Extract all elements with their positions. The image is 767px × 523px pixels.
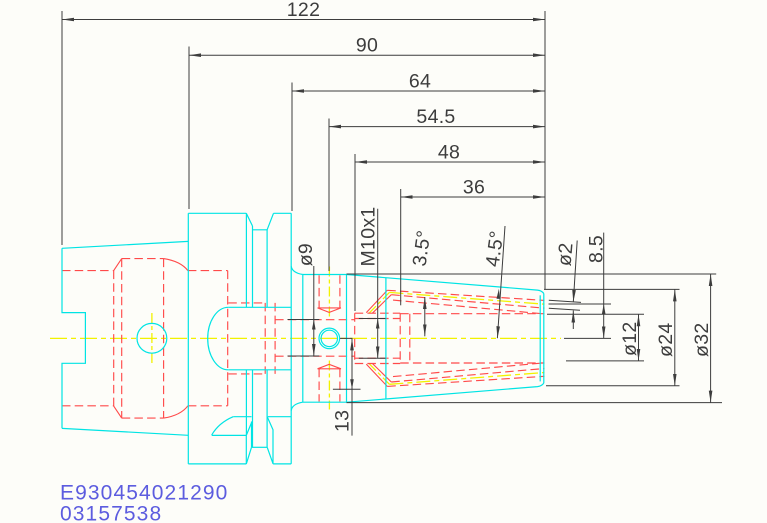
lower port left wall: [318, 369, 320, 402]
HSK cavity top line: [122, 258, 164, 260]
flange rear fillet bottom: [291, 402, 303, 410]
HSK cavity chamfer bottom-left: [114, 406, 122, 418]
svg-text:13: 13: [332, 410, 354, 432]
upper port left wall: [318, 275, 320, 308]
nose taper bottom edge: [347, 383, 544, 402]
flange V-groove top: [246, 213, 273, 230]
diameter 32 dimension line: [710, 274, 712, 403]
collet lead-in chamfer upper outer: [366, 290, 387, 312]
svg-text:36: 36: [463, 177, 485, 199]
HSK cavity corner arc top-right: [164, 259, 188, 271]
groove wall verticals bottom: [246, 370, 267, 448]
collet lead-in chamfer upper inner: [372, 295, 391, 314]
diameter 2 leader upper: [573, 241, 577, 303]
upper radial port centerline: [328, 267, 330, 317]
diameter 24 extension top: [544, 288, 680, 290]
collet taper upper line 2: [391, 295, 544, 309]
extension line port center: [328, 119, 330, 272]
collet taper centerline upper: [389, 292, 544, 304]
diameter 32 extension bottom: [347, 402, 723, 404]
bore 9 top hidden line: [275, 319, 355, 321]
thread M10 extension segment bottom: [359, 357, 386, 359]
svg-text:54.5: 54.5: [416, 106, 455, 128]
svg-text:ø2: ø2: [554, 242, 578, 267]
cone intermediate edge: [385, 278, 387, 399]
diameter 12 dimension line: [638, 314, 640, 361]
diameter 9 dimension line: [313, 266, 315, 356]
HSK cavity inner left wall: [121, 259, 123, 419]
front port inner circle: [321, 330, 337, 346]
dimension 90: [189, 54, 545, 56]
dimension 8.5 up arrow: [602, 304, 606, 314]
thread M10 minor bottom line: [355, 357, 401, 359]
dimension 122: [62, 19, 545, 21]
diameter 24 extension bottom: [546, 385, 680, 387]
collet taper upper line 1: [387, 290, 544, 300]
thread M10 top outer line: [355, 312, 401, 314]
flange top edge front: [188, 212, 246, 214]
flange bottom edge front: [188, 463, 246, 465]
HSK cavity bottom line: [122, 417, 164, 419]
hidden bore step wall 2: [274, 303, 276, 374]
pocket slant left: [246, 422, 252, 464]
svg-text:M10x1: M10x1: [358, 206, 380, 266]
thread M10 start face: [354, 313, 356, 363]
dimension 13 line: [351, 338, 353, 435]
hidden bore step wall 1: [264, 303, 266, 374]
drive pocket capsule top: [228, 306, 291, 308]
HSK cavity bore bottom line right: [188, 405, 228, 407]
main axis centerline: [50, 337, 561, 339]
upper port right wall: [339, 275, 341, 308]
svg-text:122: 122: [287, 0, 320, 21]
diameter 12 extension bottom: [566, 360, 644, 362]
HSK cavity bore top line right: [188, 270, 228, 272]
svg-text:ø9: ø9: [295, 243, 317, 266]
extension line flange face: [188, 47, 190, 210]
angle 4.5 up arrow: [497, 289, 501, 299]
svg-text:03157538: 03157538: [60, 503, 162, 523]
bore 12 bottom hidden line: [400, 362, 544, 364]
lower radial port centerline: [328, 361, 330, 410]
flange rear fillet top: [291, 266, 303, 274]
HSK cavity left wall: [113, 271, 115, 407]
svg-text:64: 64: [409, 71, 431, 93]
extension line flange rear: [291, 83, 293, 212]
nose taper top edge: [347, 275, 544, 294]
groove wall verticals top: [246, 213, 267, 307]
dimension 13 down arrow: [350, 379, 354, 389]
cylinder bottom edge: [303, 401, 347, 403]
nose end face inner chamfer line: [539, 295, 541, 381]
diameter 9 extension segment bottom: [288, 355, 320, 357]
flange bottom edge rear: [273, 463, 291, 465]
upper port drill cone: [318, 308, 342, 313]
extension line nose face: [544, 11, 546, 289]
axis extension line: [564, 337, 611, 339]
dimension 13 axis extension: [340, 337, 353, 339]
HSK shank rear face with keyway notch: [62, 248, 85, 428]
HSK cavity corner arc bottom-right: [164, 406, 188, 418]
diameter 2 leader lower: [572, 311, 574, 330]
nose end face outer: [543, 294, 545, 384]
diameter 2 taper extension lower: [549, 308, 580, 310]
extension line left face: [61, 11, 63, 245]
pocket top edge lower flange: [233, 416, 291, 418]
dimension 54.5: [329, 126, 545, 128]
svg-text:90: 90: [356, 35, 378, 57]
diameter 9 extension segment top: [288, 319, 320, 321]
HSK cavity chamfer top-left: [114, 259, 122, 271]
pocket arc lower flange: [212, 417, 234, 435]
HSK cavity right wall: [163, 259, 165, 419]
cylinder front edge: [302, 275, 304, 403]
drive pocket capsule round end: [208, 307, 229, 370]
flange top edge rear: [274, 212, 292, 214]
svg-text:ø24: ø24: [655, 322, 677, 357]
angle 4.5 dimension line: [497, 226, 505, 338]
dimension 64: [292, 90, 545, 92]
diameter 12 extension top: [547, 313, 644, 315]
thread M10 minor top line: [355, 318, 401, 320]
dimension 48: [355, 161, 545, 163]
svg-text:8.5: 8.5: [586, 235, 608, 263]
thread M10 up arrow: [376, 319, 380, 329]
collet taper lower line 2: [391, 369, 544, 383]
collet taper lower line 1: [387, 376, 544, 386]
pocket wall vertical: [245, 435, 247, 464]
lower groove bottom: [252, 446, 268, 448]
front port outer circle: [319, 328, 340, 349]
thread M10 bottom outer line: [355, 363, 401, 365]
HSK shank taper bottom edge: [62, 428, 188, 435]
diameter 2 taper extension upper: [549, 300, 581, 302]
collet lead-in chamfer centerline upper: [369, 292, 390, 313]
svg-text:E930454021290: E930454021290: [60, 482, 228, 505]
thread M10 extension segment top: [359, 318, 386, 320]
extension line 36: [400, 189, 402, 305]
collet taper upper line 3: [393, 300, 545, 314]
thread M10 end face: [399, 313, 401, 363]
thread M10 dimension line: [377, 209, 379, 359]
radius 8.5 extension line A: [549, 303, 612, 305]
dimension 8.5 line: [603, 233, 605, 339]
pocket slant right: [267, 417, 273, 464]
svg-text:48: 48: [438, 142, 460, 164]
svg-text:ø12: ø12: [619, 321, 641, 356]
diameter 32 extension top: [347, 273, 717, 275]
lower port drill cone: [318, 364, 342, 369]
HSK cavity bore top line left: [62, 270, 114, 272]
extension line thread start: [354, 154, 356, 311]
pocket mid edge lower flange: [212, 434, 247, 436]
hidden bore step top: [228, 302, 265, 304]
drive pocket capsule bottom: [228, 369, 291, 371]
diameter 9 up arrow: [312, 320, 316, 330]
hidden bore step bottom: [228, 373, 265, 375]
lower port right wall: [339, 369, 341, 402]
collet taper centerline lower: [389, 373, 544, 385]
taper start edge: [346, 275, 348, 403]
diameter 24 dimension line: [674, 289, 676, 385]
HSK drive hole circle: [137, 323, 167, 353]
cylinder top edge: [303, 274, 347, 276]
collet taper lower line 3: [393, 363, 545, 377]
angle 3.5 dimension line: [424, 297, 426, 336]
bore 12 top hidden line: [400, 313, 544, 315]
flange rear face: [290, 213, 292, 464]
HSK cavity bore bottom line left: [62, 405, 114, 407]
collet lead-in chamfer lower outer: [366, 364, 387, 386]
dimension 13 bottom extension: [333, 388, 361, 390]
collet lead-in chamfer lower inner: [372, 364, 391, 383]
bore step wall at thread end: [409, 314, 411, 363]
flange front face: [187, 213, 189, 464]
bore 9 bottom hidden line: [275, 355, 355, 357]
dimension 36: [401, 196, 545, 198]
flange hidden bore back wall: [227, 271, 229, 406]
collet lead-in chamfer centerline lower: [369, 363, 390, 384]
HSK drive hole vertical centerline: [151, 313, 153, 364]
svg-text:ø32: ø32: [691, 322, 713, 357]
HSK shank taper top edge: [62, 241, 188, 248]
